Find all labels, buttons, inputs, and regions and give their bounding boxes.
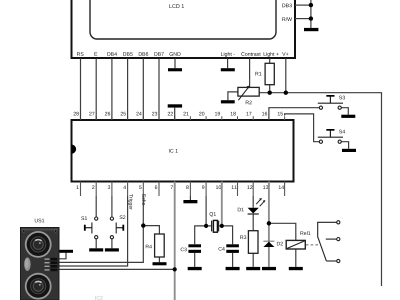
wire Contrast to R2 wiper — [249, 59, 251, 88]
resistor R4 — [155, 234, 165, 257]
wire Echo branch to R4 — [143, 226, 159, 234]
junction dot V+-rail — [284, 91, 288, 95]
US1 screw hole top-left — [23, 230, 26, 233]
wire C4 to ground — [232, 253, 234, 267]
wire S4 to ground — [341, 142, 348, 149]
ground bar D2 — [262, 267, 276, 270]
wire C3 to ground — [194, 253, 196, 267]
wire relay to ground — [295, 249, 297, 267]
ground bar R3 — [246, 267, 260, 270]
wire IC pin2 to S1 — [95, 196, 97, 217]
pushbutton S1 — [81, 216, 98, 238]
wire crystal right segment — [219, 225, 222, 227]
potentiometer R2 — [238, 87, 259, 96]
ground bar C4 — [226, 267, 240, 270]
LCD pin label Contrast — [241, 52, 260, 56]
junction dot R1-rail — [268, 91, 272, 95]
junction dot Echo-R4 — [141, 223, 145, 227]
resistor R1 — [265, 63, 274, 84]
capacitor C3 — [188, 244, 201, 247]
wire Light+ to R1 — [269, 59, 271, 64]
cutoff label bottom — [95, 296, 102, 300]
LCD pin label GND — [169, 52, 180, 56]
wire S2 to ground — [111, 239, 113, 249]
wire R/W to right node — [295, 18, 311, 20]
wire IC pin9 to crystal node — [205, 196, 207, 226]
wire V+ rail to right edge — [259, 93, 381, 286]
LCD1 screen inner rounded rect — [90, 0, 276, 39]
ground bar Light- — [221, 68, 235, 71]
wire right node vertical — [310, 0, 312, 28]
pushbutton S3 — [318, 95, 345, 109]
US1 pin 2 — [51, 261, 58, 264]
rotated label Echo — [142, 194, 146, 205]
wire R4 to ground — [158, 257, 160, 262]
diode D2 — [263, 241, 282, 247]
LCD LCD1 outer box — [72, 0, 296, 58]
wire crystal node to C4 — [222, 226, 233, 244]
wire US1 gnd pin to ground bar — [57, 253, 66, 259]
LCD pin label DB5 — [123, 52, 132, 56]
relay coil Rel1 — [286, 231, 310, 249]
US1 silkscreen marks — [45, 258, 50, 259]
junction dot Q1 right — [220, 224, 224, 228]
LCD pin label DB7 — [154, 52, 163, 56]
ground bar S4 — [342, 149, 356, 152]
US1 pin 4 — [51, 269, 58, 272]
ground bar C3 — [188, 267, 202, 270]
US1 pin 1 — [51, 258, 58, 261]
US1 pin 3 — [51, 265, 58, 268]
crystal Q1 — [210, 212, 219, 232]
pushbutton S2 — [110, 215, 125, 238]
ground bar R4 — [153, 262, 167, 265]
LCD pin label Light+ — [264, 52, 279, 57]
ground bar S1 — [89, 248, 103, 251]
wire IC pin22 to ground — [174, 108, 176, 120]
wire IC pin3 to S2 — [111, 196, 113, 217]
pushbutton S4 — [318, 129, 345, 143]
wire Echo IC pin5 to US1 — [57, 196, 143, 262]
relay dashed link — [306, 244, 320, 246]
resistor R3 — [248, 231, 258, 254]
ground bar LCD GND — [168, 68, 182, 71]
IC1 bottom pin stubs — [81, 182, 285, 197]
gray wire IC pin7 column — [174, 182, 176, 300]
ground bar IC pin8 — [183, 200, 197, 203]
LCD pin label DB6 — [139, 52, 148, 56]
junction dot pin7-US1 — [173, 267, 177, 271]
wire pin13 node to relay — [269, 223, 296, 240]
LCD1 label — [169, 4, 184, 8]
ground bar S3 — [341, 115, 355, 118]
wire S1 to ground — [95, 239, 97, 249]
wire DB4 LCD to IC pin26 — [111, 59, 113, 121]
wire crystal node to C3 — [195, 226, 206, 244]
gray wire IC pin10 to crystal — [221, 182, 223, 226]
IC1 label — [169, 149, 178, 153]
ground bar IC pin22 — [168, 104, 182, 107]
wire LCD GND pin stub — [174, 59, 176, 69]
ground bar US1 — [59, 250, 73, 253]
US1 crystal oval — [24, 257, 32, 272]
relay contact SPDT — [318, 221, 340, 263]
LCD pin label RS — [77, 52, 84, 56]
IC IC1 body — [72, 112, 294, 196]
wire DB7 LCD to IC pin23 — [158, 59, 160, 121]
wire Trigger IC pin4 to US1 — [57, 196, 128, 266]
ultrasonic module US1 — [21, 219, 60, 300]
IC1 top pin stubs — [81, 116, 285, 120]
wire E LCD to IC pin27 — [95, 59, 97, 121]
IC1 bottom pin numbers 1..14 — [77, 185, 284, 189]
wire R3 to ground — [252, 253, 254, 267]
wire crystal left segment — [206, 225, 212, 227]
LCD pin label E — [94, 52, 97, 56]
LCD pin label DB3 — [282, 4, 291, 8]
wire DB5 LCD to IC pin25 — [127, 59, 129, 121]
junction dot pin13-relay — [267, 221, 271, 225]
IC1 notch — [72, 145, 77, 154]
IC1 top pin numbers 28..15 — [74, 112, 283, 116]
LCD pin label V+ — [282, 52, 288, 56]
wire IC pin12 to D1 — [252, 196, 254, 208]
junction dot R/W node — [309, 16, 313, 20]
wire US1 V pin to pin7 rail — [57, 268, 175, 270]
US1 screw hole top-right — [54, 230, 57, 233]
wire R2 left terminal to ground — [228, 92, 238, 100]
wire LCD Light- pin stub — [227, 59, 229, 69]
ground bar S2 — [105, 248, 119, 251]
ground bar Rel1 — [289, 267, 303, 270]
ground bar R2 left — [221, 100, 235, 103]
wire IC pin16 to S3 — [269, 108, 320, 120]
US1 transducer bottom — [25, 273, 52, 300]
wire DB3 to right node — [295, 4, 311, 6]
US1 board — [21, 228, 60, 300]
wire RS LCD to IC pin28 — [80, 59, 82, 121]
wire IC pin8 to ground — [189, 196, 191, 200]
wire V+ to rail — [285, 59, 287, 93]
wire R1 to rail — [269, 85, 271, 93]
rotated label Trigger — [128, 194, 133, 210]
wire D1 to R3 — [252, 214, 254, 231]
capacitor C4 — [226, 244, 239, 247]
LED D1 — [238, 198, 266, 214]
gray wire IC pin13 to D2 and ground — [268, 182, 270, 267]
US1 transducer top — [25, 231, 52, 258]
wire S3 to ground — [341, 108, 348, 115]
wire DB6 LCD to IC pin24 — [142, 59, 144, 121]
LCD pin label Light- — [221, 52, 235, 57]
junction dot DB3 node — [309, 3, 313, 7]
LCD pin label DB4 — [107, 52, 117, 56]
LCD pin label R/W — [282, 17, 292, 21]
junction dot Q1 left — [204, 224, 208, 228]
ground bar DB3/RW node — [304, 28, 318, 31]
wire IC pin15 to S4 — [285, 114, 320, 142]
